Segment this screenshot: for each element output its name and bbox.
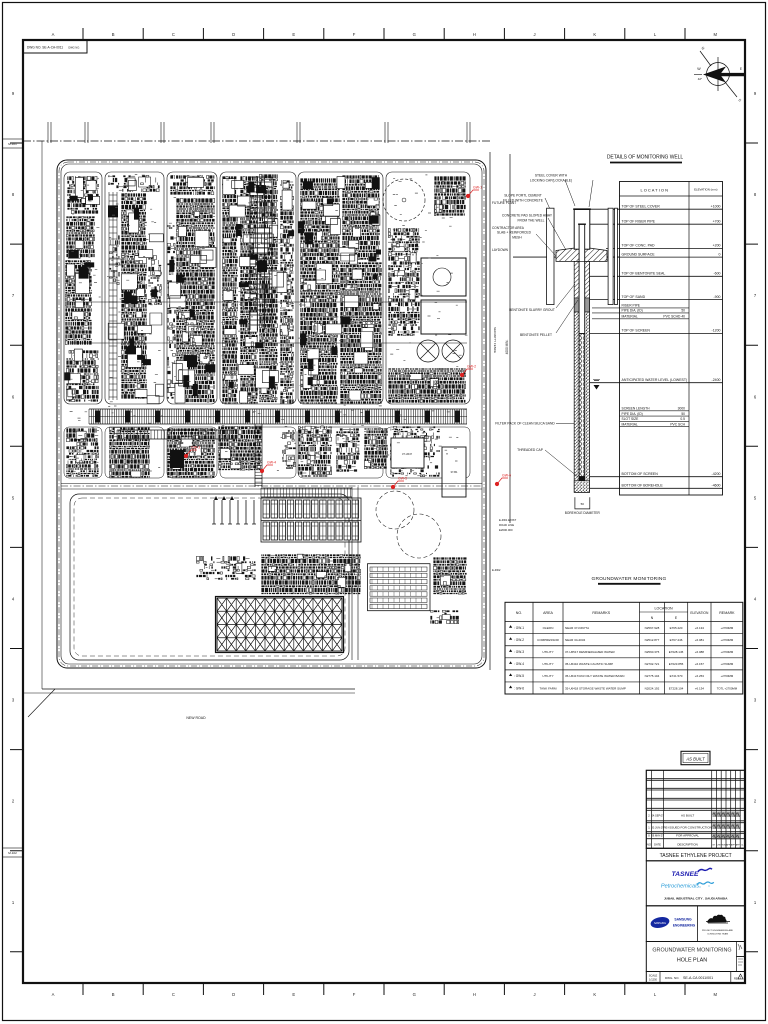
svg-text:AREA: AREA [543,611,553,615]
sand pack speckle [574,312,579,492]
project name band [646,848,745,861]
svg-text:TOP OF BENTONITE SEAL: TOP OF BENTONITE SEAL [622,272,666,276]
svg-text:ELEVATION (mm): ELEVATION (mm) [694,188,717,192]
svg-text:NO.: NO. [516,611,522,615]
svg-text:37-B1: 37-B1 [451,470,458,474]
svg-text:+6.134: +6.134 [695,686,705,690]
svg-text:MESH: MESH [512,236,522,240]
borehole outline [574,261,589,492]
lane B rack lines [109,192,117,400]
dark box [170,450,184,468]
svg-text:4000 MIN.: 4000 MIN. [505,340,509,355]
small yard items [196,556,255,579]
gw table col lines [533,602,711,694]
svg-text:FOR APPROVAL: FOR APPROVAL [676,834,699,838]
lane F building 2 [421,300,466,334]
scattered tiny labels [67,174,468,471]
svg-text:JUBAIL INDUSTRIAL CITY . SAU: JUBAIL INDUSTRIAL CITY . SAUDI ARABIA [664,897,728,901]
svg-text:04.SEP.07: 04.SEP.07 [651,814,664,818]
lane D equipment [222,176,237,403]
svg-text:+1000: +1000 [711,204,721,208]
svg-text:F: F [353,32,356,37]
fence line above site [23,140,490,142]
white building lower F [391,438,424,468]
revision table [646,770,745,848]
svg-text:A: A [52,32,55,37]
svg-text:-2400: -2400 [712,378,721,382]
vertical rack to yard [254,424,256,487]
svg-text:GW-5: GW-5 [398,477,407,481]
svg-text:35-U6410 WASTE CAUSTIC SUMP: 35-U6410 WASTE CAUSTIC SUMP [565,662,613,666]
as-built stamp box [681,751,710,764]
clarifier unit east yard [368,564,431,611]
svg-text:+6.134: +6.134 [695,626,705,630]
svg-text:BENTONITE PELLET: BENTONITE PELLET [520,333,552,337]
svg-text:+200: +200 [713,244,721,248]
white building SE [442,447,466,497]
svg-text:+6.081: +6.081 [695,638,705,642]
svg-text:NEAR 34-2034: NEAR 34-2034 [565,638,586,642]
svg-text:Petrochemicals: Petrochemicals [661,884,699,890]
bentonite pellets gray [574,298,579,312]
svg-text:M: M [713,32,717,37]
svg-text:COMPRESSOR: COMPRESSOR [537,638,560,642]
svg-text:N2560.375: N2560.375 [645,650,660,654]
west offsite line [41,141,43,689]
svg-text:PIPE DIA. (ID): PIPE DIA. (ID) [622,412,643,416]
svg-text:ELEVATION: ELEVATION [690,611,709,615]
svg-text:BOREHOLE DIAMETER: BOREHOLE DIAMETER [565,511,601,515]
screen section circles [579,334,585,477]
svg-text:+6.088: +6.088 [695,650,705,654]
svg-text:TANK FARM: TANK FARM [540,686,557,690]
settling ponds dashed circles [376,491,414,529]
south offsite road [42,688,355,690]
svg-text:C: C [172,992,175,997]
title block bottom row [646,972,745,984]
svg-text:50: 50 [581,502,585,506]
svg-text:REMARKS: REMARKS [592,611,610,615]
svg-text:09.MAY.07: 09.MAY.07 [651,834,664,838]
svg-text:TASNEE: TASNEE [671,871,699,878]
svg-text:FILLED WITH CONCRETE: FILLED WITH CONCRETE [503,199,544,203]
yard east road [351,487,353,660]
water level symbol [593,379,600,380]
mid road dash-dot [61,483,482,485]
svg-text:W: W [697,67,701,71]
svg-text:20.JUN.07: 20.JUN.07 [651,826,664,830]
svg-text:GW-1: GW-1 [473,186,482,190]
svg-text:L O C A T I O N: L O C A T I O N [641,188,669,193]
svg-text:DWG NO. SE-A-CA-0011: DWG NO. SE-A-CA-0011 [27,46,63,50]
riser pipe [579,224,585,333]
svg-text:SLOT SIZE: SLOT SIZE [622,417,640,421]
lane F equipment bottom [388,368,465,402]
svg-text:: GW-3: : GW-3 [514,650,524,654]
fence gate ticks [48,122,470,143]
svg-text:PVC SCHD 40: PVC SCHD 40 [663,315,685,319]
svg-text:+2700MM: +2700MM [721,662,734,666]
svg-text:M-102: M-102 [8,851,17,855]
svg-text:TOP OF CONC. PAD: TOP OF CONC. PAD [622,244,656,248]
north arrow compass [700,51,737,97]
detail table frame [620,182,723,496]
svg-text:D: D [232,992,235,997]
svg-text:N2775.104: N2775.104 [645,674,660,678]
svg-text:M-101: M-101 [8,142,17,146]
steel casing above ground [574,209,590,249]
east yard small unit [433,557,466,594]
svg-text:1/1250: 1/1250 [649,978,657,982]
svg-text:+2700MM: +2700MM [721,674,734,678]
svg-text:AS BUILT: AS BUILT [681,814,694,818]
svg-text:E741.570: E741.570 [670,674,683,678]
svg-text:0: 0 [719,252,721,256]
svg-text:AS BUILT: AS BUILT [685,757,705,762]
svg-text:E767.246: E767.246 [670,638,683,642]
svg-text:PIPE DIA. (ID): PIPE DIA. (ID) [622,309,643,313]
svg-text:TOTL +2700MM: TOTL +2700MM [717,686,738,690]
svg-text:50: 50 [681,309,685,313]
svg-text:TASNEE ETHYLENE PROJECT: TASNEE ETHYLENE PROJECT [660,853,732,859]
svg-text:GW-6: GW-6 [502,474,511,478]
svg-text:PROJECT ENGINEERING AND: PROJECT ENGINEERING AND [702,929,734,932]
tank rows unit [261,498,361,542]
svg-text:: GW-2: : GW-2 [514,638,524,642]
svg-text:LAYDOWN: LAYDOWN [492,248,509,252]
svg-text:UTILITY: UTILITY [542,662,553,666]
svg-text:ANTICIPATED WATER LEVEL (LOWES: ANTICIPATED WATER LEVEL (LOWEST) [622,378,688,382]
svg-text:THREADED CAP: THREADED CAP [517,448,544,452]
monitoring well markers (red) [466,186,482,198]
right guard posts [608,208,613,304]
ladder grid lane D [250,177,272,330]
svg-text:E7228.104: E7228.104 [669,686,684,690]
svg-text:-1200: -1200 [712,329,721,333]
texture variation patches [67,177,380,404]
svg-text:K: K [593,992,596,997]
svg-text:+6.253: +6.253 [695,674,705,678]
svg-text:SLAB + REINFORCED: SLAB + REINFORCED [497,231,532,235]
svg-text:G: G [413,32,416,37]
boundary centerline dash-dot [59,162,484,666]
svg-text:TOP OF SAND: TOP OF SAND [622,295,646,299]
svg-text:CONTRACTOR AREA: CONTRACTOR AREA [492,226,525,230]
lane F equipment mid [388,228,419,335]
lane F dashed circle tank [383,179,425,221]
samsung ellipse [650,915,671,929]
svg-text:GROUND SURFACE: GROUND SURFACE [622,252,656,256]
svg-text:BOTTOM OF SCREEN: BOTTOM OF SCREEN [622,472,659,476]
lane E equipment [300,178,339,294]
left ruler ticks [10,143,23,952]
svg-text:SE-A-CA 0011/001: SE-A-CA 0011/001 [683,976,713,980]
svg-text:J: J [534,32,536,37]
svg-text:37-U647: 37-U647 [402,452,413,456]
unit lane roads [64,172,102,404]
svg-text:NEW ROAD: NEW ROAD [186,716,206,720]
svg-text:0.5: 0.5 [680,417,685,421]
svg-text:J: J [534,992,536,997]
svg-text:E7028.145: E7028.145 [669,650,684,654]
svg-text:RISER PIPE: RISER PIPE [622,304,641,308]
svg-text:CONSULTING TEAM: CONSULTING TEAM [707,933,728,936]
svg-text:DWG. NO.: DWG. NO. [665,976,679,980]
svg-text:ENGINEERING: ENGINEERING [673,924,696,928]
svg-text:GW-4: GW-4 [267,461,276,465]
svg-text:ROAD LINE: ROAD LINE [499,523,514,527]
svg-text:42°: 42° [698,77,703,81]
far east line [509,154,511,523]
svg-text:E2600.000: E2600.000 [499,528,513,532]
svg-text:F: F [353,992,356,997]
concrete pad hatched [556,247,607,261]
svg-text:50: 50 [681,412,685,416]
svg-text:: GW-6: : GW-6 [514,686,524,690]
svg-text:: GW-4: : GW-4 [514,662,524,666]
contractor logo boxes [646,906,745,942]
owner logo box [646,861,745,906]
svg-text:37-U6517 DEMINERALIZED WATER: 37-U6517 DEMINERALIZED WATER [565,650,616,654]
cooling tower array [217,598,342,651]
lane F building 1 [421,258,466,296]
svg-text:REMARK: REMARK [719,611,735,615]
svg-text:-4600: -4600 [712,484,721,488]
svg-text:G: G [413,992,416,997]
svg-text:E-RD2: E-RD2 [492,568,501,572]
drawing title box [646,942,745,972]
svg-text:DETAILS OF MONITORING WELL: DETAILS OF MONITORING WELL [607,155,684,161]
svg-text:LOCATION: LOCATION [655,607,674,611]
svg-text:: GW-1: : GW-1 [514,626,524,630]
svg-text:H: H [473,32,476,37]
ground line [513,256,556,258]
yard top rack strip [261,487,352,489]
svg-text:SAMSUNG: SAMSUNG [654,922,666,925]
svg-text:D: D [232,32,235,37]
svg-text:RE-ISSUED FOR CONSTRUCTION: RE-ISSUED FOR CONSTRUCTION [663,826,712,830]
svg-text:OLEFIN: OLEFIN [543,626,554,630]
svg-text:N2702.721: N2702.721 [645,662,660,666]
svg-text:+2700MM: +2700MM [721,626,734,630]
svg-text:N2512.877: N2512.877 [645,638,660,642]
svg-text:35-U6417/U63 OILY WASTE WATER: 35-U6417/U63 OILY WASTE WATER BASIN [565,674,624,678]
svg-text:GW-2: GW-2 [467,365,476,369]
svg-text:GROUNDWATER MONITORING: GROUNDWATER MONITORING [592,576,667,582]
road diagonal [28,689,55,717]
svg-text:B: B [112,32,115,37]
svg-text:E: E [740,67,742,71]
svg-text:UTILITY: UTILITY [542,650,553,654]
lane A equipment [67,176,98,213]
svg-text:E-RD1 EXIST: E-RD1 EXIST [499,518,517,522]
well leader lines [536,180,593,477]
bottom ruler ticks [83,983,685,995]
svg-text:SAMSUNG: SAMSUNG [674,918,692,922]
lane C equipment [170,175,214,194]
svg-text:DESCRIPTION: DESCRIPTION [677,843,698,847]
svg-text:MATERIAL: MATERIAL [622,315,638,319]
borehole dia box [575,497,590,509]
svg-text:-900: -900 [713,295,720,299]
lane B equipment [108,175,159,191]
svg-text:E: E [292,992,295,997]
svg-text:M: M [713,992,717,997]
signature scribbles [713,813,718,816]
svg-text:E7023.855: E7023.855 [669,662,684,666]
svg-text:SCALE: SCALE [649,974,658,978]
svg-text:K: K [593,32,596,37]
left guard post [547,208,554,304]
secondary rack band left [117,429,237,431]
svg-text:SLOPE PORTL CEMENT: SLOPE PORTL CEMENT [504,194,542,198]
svg-text:SCREEN LENGTH: SCREEN LENGTH [622,407,651,411]
svg-text:3000: 3000 [678,407,686,411]
svg-text:NEAR 37-K6977A: NEAR 37-K6977A [565,626,589,630]
gw header lines [505,621,743,623]
svg-text:BENTONITE SLURRY GROUT: BENTONITE SLURRY GROUT [509,308,555,312]
pect logo blob [707,915,727,923]
gw table rows [509,625,512,628]
svg-text:N2024.192: N2024.192 [645,686,660,690]
wwt unit mid yard [261,554,360,594]
borehole bottom speckle [574,481,589,493]
svg-text:FROM THE WELL: FROM THE WELL [517,219,544,223]
cross pipes [70,301,467,303]
lane F equipment top right [434,176,465,215]
svg-text:E: E [292,32,295,37]
left margin ref boxes [3,139,23,148]
svg-text:STEEL COVER WITH: STEEL COVER WITH [535,174,568,178]
svg-text:FILTER PACK OF CLEAN SILICA SA: FILTER PACK OF CLEAN SILICA SAND [495,422,555,426]
svg-text:DWG NO.: DWG NO. [68,46,80,50]
east fence line [489,152,491,670]
right ruler ticks [745,143,758,952]
svg-text:PVC SCH: PVC SCH [670,422,685,426]
svg-text:+700: +700 [713,219,721,223]
svg-text:-4200: -4200 [712,472,721,476]
svg-text:H: H [473,992,476,997]
svg-text:GROUNDWATER MONITORING: GROUNDWATER MONITORING [652,948,731,954]
detail table rows + leader lines [590,208,723,210]
svg-text:: GW-5: : GW-5 [514,674,524,678]
svg-text:NO: NO [647,843,652,847]
svg-text:B: B [112,992,115,997]
svg-text:DATE: DATE [654,843,661,847]
svg-text:APP: APP [736,844,741,847]
svg-text:E765.220: E765.220 [670,626,683,630]
svg-text:BOTTOM OF BOREHOLE: BOTTOM OF BOREHOLE [622,484,664,488]
svg-text:C: C [172,32,175,37]
svg-text:35-U6418 STORAGE WASTE WATER S: 35-U6418 STORAGE WASTE WATER SUMP [565,686,626,690]
svg-text:+6.157: +6.157 [695,662,705,666]
stamp boxes right of title [737,942,746,957]
svg-text:TOP OF STEEL COVER: TOP OF STEEL COVER [622,204,661,208]
flare stacks [212,500,256,524]
main pipe rack band [89,408,467,410]
lane F twin circle tanks [417,340,464,362]
svg-text:RVW: RVW [721,845,726,847]
svg-text:+2700MM: +2700MM [721,650,734,654]
svg-text:A: A [52,992,55,997]
svg-text:HOLE PLAN: HOLE PLAN [677,958,707,964]
svg-text:TOP OF SCREEN: TOP OF SCREEN [622,329,651,333]
gw table frame [505,602,743,694]
svg-text:CONCRETE PAD SLOPED AWAY: CONCRETE PAD SLOPED AWAY [502,214,553,218]
svg-text:-600: -600 [713,272,720,276]
svg-text:MATERIAL: MATERIAL [622,422,638,426]
svg-text:TOP OF RISER PIPE: TOP OF RISER PIPE [622,219,656,223]
top ruler ticks [83,28,685,40]
svg-text:GW-3: GW-3 [191,446,200,450]
svg-text:N2567.928: N2567.928 [645,626,660,630]
yard inner road [70,494,349,660]
borehole bentonite grout hatch [574,261,579,298]
svg-text:UTILITY: UTILITY [542,674,553,678]
svg-text:SECURITY FENCE: SECURITY FENCE [493,327,497,353]
svg-text:+2700MM: +2700MM [721,638,734,642]
site outer boundary road [57,160,486,668]
threaded cap [579,477,586,481]
dwg-no box top-left [23,40,87,53]
